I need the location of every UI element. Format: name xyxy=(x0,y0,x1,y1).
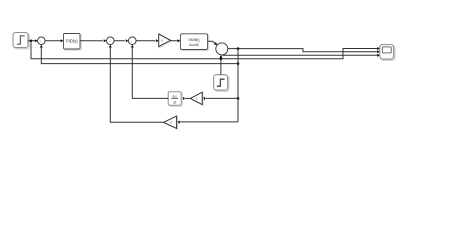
wire Gain2 to washout block xyxy=(185,97,191,99)
scope Scope xyxy=(380,45,395,61)
wire Sum2 to Sum3 xyxy=(114,40,125,42)
sum Sum3 xyxy=(129,37,137,45)
step source Step (reference) xyxy=(13,33,29,49)
step source Step2 (disturbance, output up) xyxy=(214,75,229,92)
node Step2/reference line crossing junction xyxy=(220,58,223,61)
node washout tee xyxy=(237,97,240,100)
sum Sum1 xyxy=(38,37,46,45)
gain Gain2 (pointing left) xyxy=(190,92,203,105)
gain Gain1 (exciter gain, pointing right) xyxy=(159,34,172,48)
sum big Sum4 (machine node) xyxy=(216,43,228,55)
wire reference feedforward: down from Step branch, right, up to Scope in1 xyxy=(31,41,377,59)
svg-text:-: - xyxy=(42,41,43,45)
svg-text:K: K xyxy=(161,39,163,43)
wire Gain1 to SMIB xyxy=(171,40,178,42)
block SMIB machine model xyxy=(180,34,208,51)
svg-text:Δω∕Δδ: Δω∕Δδ xyxy=(189,43,199,47)
node output branch xyxy=(237,47,240,50)
wire Sum4 output to Scope in2 with step-down xyxy=(228,49,378,52)
wire SMIB to big sum (angled entry) xyxy=(208,41,216,43)
svg-text:-: - xyxy=(133,41,134,45)
wire washout to Sum3 bottom xyxy=(132,48,168,99)
wire to Gain2 (washout path) xyxy=(205,97,238,99)
block PID(s) controller xyxy=(64,34,82,51)
sum Sum2 xyxy=(107,37,115,45)
wire PID to Sum2 xyxy=(80,40,103,42)
wire Step2 up to Sum4 bottom xyxy=(220,58,222,75)
wire Sum1 to PID xyxy=(45,40,61,42)
wire bottom feedback to Gain3 xyxy=(180,121,238,123)
svg-text:Δω: Δω xyxy=(172,95,177,99)
node branch on Step output xyxy=(30,39,33,42)
svg-text:Δt: Δt xyxy=(173,100,176,104)
svg-text:PID(s): PID(s) xyxy=(66,38,78,43)
svg-text:K: K xyxy=(196,97,198,101)
wire Sum4 bottom branch to Scope in3 xyxy=(222,54,377,56)
gain Gain3 (pointing left) xyxy=(164,116,178,129)
wire Gain3 to Sum2 bottom xyxy=(110,48,163,123)
block washout (fraction, flipped) xyxy=(168,92,182,107)
wire output branch vertical xyxy=(237,49,239,122)
wire feedback to Sum1 bottom xyxy=(41,48,238,64)
wire Sum3 to Gain1 xyxy=(136,40,155,42)
node feedback tee to Sum1 xyxy=(237,62,240,65)
svg-text:-: - xyxy=(111,41,112,45)
svg-text:K: K xyxy=(170,121,172,125)
svg-text:-: - xyxy=(220,50,221,54)
wire Step to Sum1 xyxy=(28,40,37,42)
svg-text:SMIB(): SMIB() xyxy=(188,38,199,42)
